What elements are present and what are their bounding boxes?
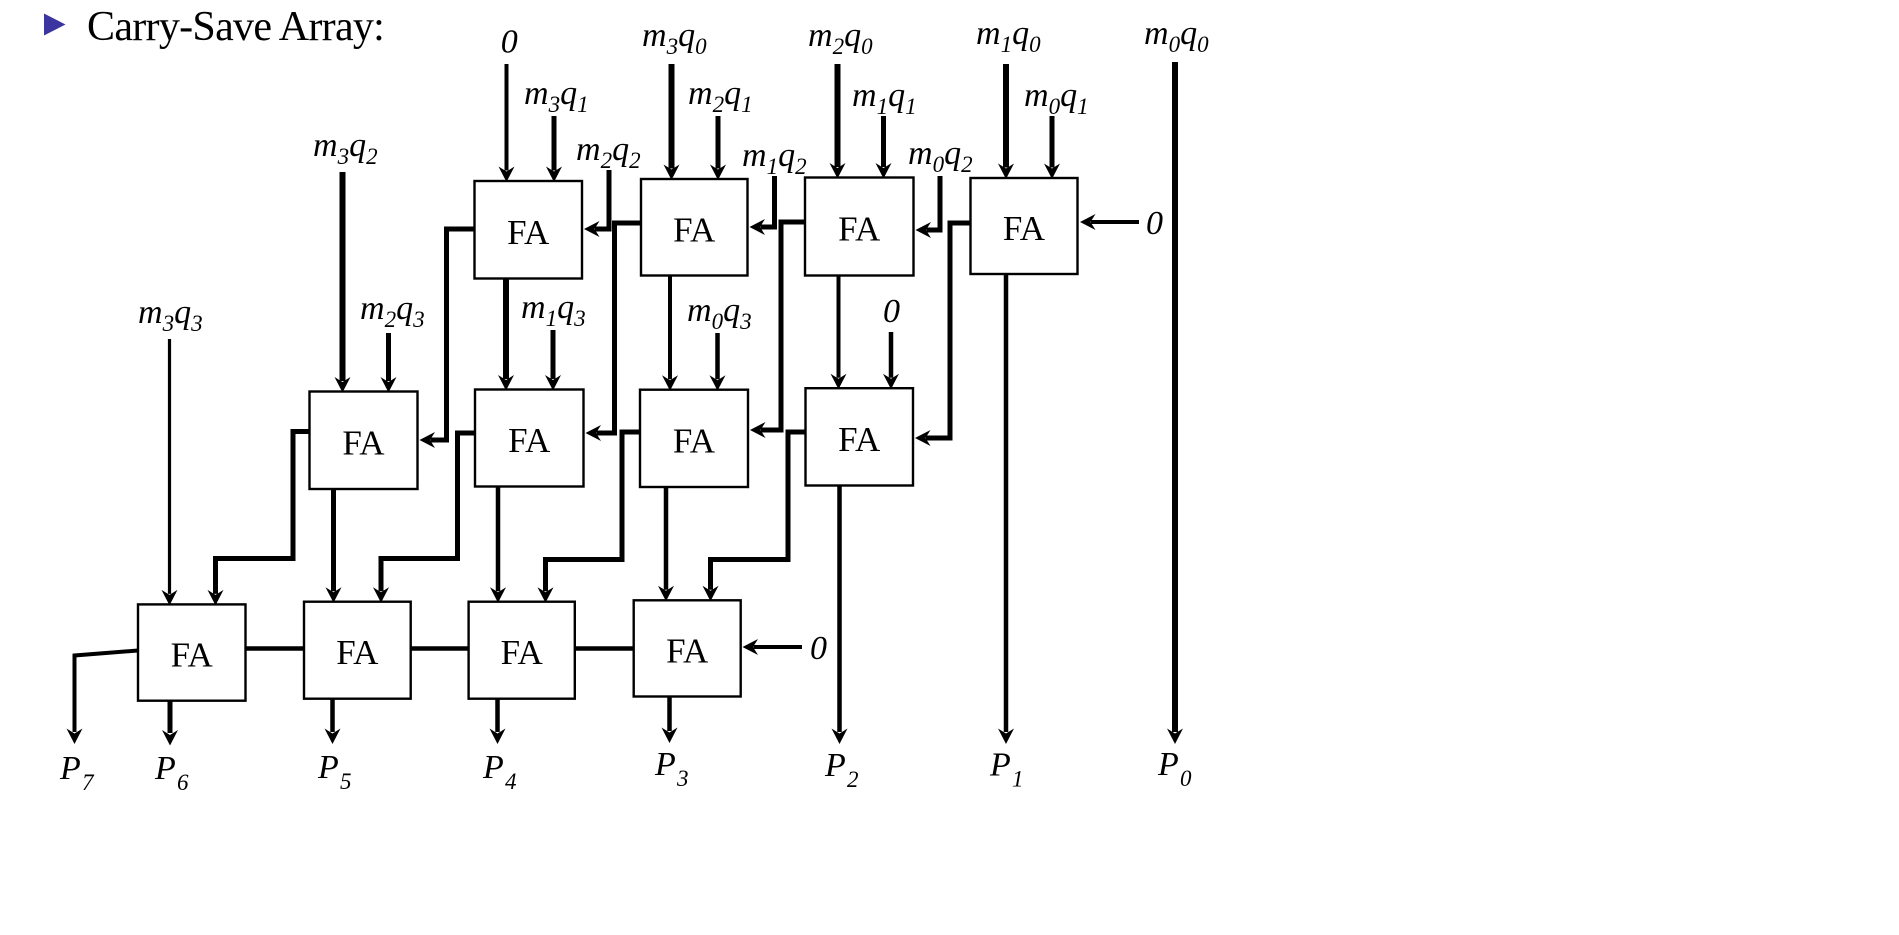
wire U3 sum to U8 input 1: [831, 276, 847, 390]
node P3: [654, 746, 689, 791]
svg-text:m2q2: m2q2: [576, 131, 641, 173]
full adder U7 (row2 col3): [640, 390, 748, 487]
full adder U8 (row2 col4): [806, 388, 914, 485]
label m0q3: [687, 292, 752, 334]
svg-text:0: 0: [1146, 205, 1163, 242]
svg-text:FA: FA: [673, 421, 716, 460]
wire m2q1 into U2 input 2: [710, 116, 726, 180]
wire U5 carry-out to U9 input 2: [208, 432, 310, 606]
svg-text:FA: FA: [507, 213, 550, 252]
svg-text:0: 0: [810, 630, 827, 667]
title bullet: [44, 14, 66, 36]
wire 0 into U1 input 1: [499, 64, 515, 182]
node P5: [317, 749, 352, 794]
full adder U9 (row3 col1): [138, 604, 246, 700]
label m1q3: [521, 289, 586, 331]
node P0: [1157, 746, 1192, 791]
wire carry link U11 to U10: [411, 646, 469, 651]
svg-text:FA: FA: [501, 633, 544, 672]
wire U7 carry-out to U11 input 2: [538, 432, 641, 603]
wire U8 carry-out to U12 input 2: [703, 432, 806, 601]
wire m1q2 into U2 carry-in: [750, 176, 775, 235]
wire m1q0 into U4 input 1: [998, 64, 1014, 179]
node 0 (input to U8): [883, 293, 900, 330]
label m3q1: [524, 75, 589, 117]
svg-text:m2q1: m2q1: [688, 75, 753, 117]
title text: [87, 4, 384, 50]
wire U2 carry-out to U6 carry-in: [586, 223, 642, 441]
svg-text:0: 0: [501, 24, 518, 61]
wire U6 carry-out to U10 input 2: [373, 433, 475, 603]
wire U4 carry-out to U8 carry-in: [915, 223, 971, 446]
full adder U11 (row3 col3): [469, 602, 575, 699]
wire 0 into U12 carry-in: [743, 639, 803, 655]
wire U9 sum down to P6: [162, 701, 178, 746]
svg-text:P4: P4: [482, 749, 517, 794]
svg-text:FA: FA: [336, 633, 379, 672]
label m0q1: [1024, 77, 1089, 119]
label m3q3: [138, 294, 203, 336]
svg-text:m0q1: m0q1: [1024, 77, 1089, 119]
svg-text:P3: P3: [654, 746, 689, 791]
wire U3 carry-out to U7 carry-in: [750, 222, 805, 438]
svg-text:m1q1: m1q1: [852, 77, 917, 119]
label m1q2: [742, 137, 807, 179]
svg-text:FA: FA: [171, 636, 214, 675]
svg-text:m3q2: m3q2: [313, 127, 378, 169]
wire m3q0 into U2 input 1: [664, 64, 680, 180]
label m1q0: [976, 15, 1041, 57]
svg-text:P5: P5: [317, 749, 352, 794]
wire m1q1 into U3 input 2: [876, 116, 892, 179]
wire U1 carry-out to U5 carry-in: [420, 229, 475, 448]
wire U2 sum to U7 input 1: [662, 276, 678, 391]
full adder U10 (row3 col2): [304, 602, 411, 699]
wire U12 sum down to P3: [662, 697, 678, 744]
svg-text:m1q0: m1q0: [976, 15, 1041, 57]
wire U6 sum to U11 input 1: [490, 487, 506, 603]
wire m0q3 into U7 input 2: [710, 333, 726, 391]
label m0q2: [908, 135, 973, 177]
wire U9 carry-out down to P7: [67, 651, 139, 745]
svg-text:m2q0: m2q0: [808, 17, 873, 59]
full adder U4 (row1 col4): [971, 178, 1078, 274]
svg-text:FA: FA: [342, 423, 385, 462]
svg-text:FA: FA: [673, 210, 716, 249]
svg-text:FA: FA: [838, 420, 881, 459]
label m0q0: [1144, 15, 1209, 57]
label m2q2: [576, 131, 641, 173]
full adder U6 (row2 col2): [475, 390, 584, 487]
svg-text:m3q1: m3q1: [524, 75, 589, 117]
svg-text:m0q2: m0q2: [908, 135, 973, 177]
wire 0 into U4 carry-in: [1080, 214, 1139, 230]
wire U8 sum down to P2: [832, 486, 848, 745]
wire m2q0 into U3 input 1: [830, 64, 846, 179]
full adder U1 (row1 col1): [475, 181, 583, 279]
label m2q3: [360, 290, 425, 332]
wire m0q1 into U4 input 2: [1044, 116, 1060, 179]
wire U5 sum to U10 input 1: [326, 489, 342, 603]
node 0 (carry-in to U12): [810, 630, 827, 667]
svg-text:P2: P2: [824, 747, 859, 792]
node 0 (carry-in to U4): [1146, 205, 1163, 242]
label m2q0: [808, 17, 873, 59]
svg-text:P7: P7: [59, 750, 95, 795]
wire m3q1 into U1 input 2: [546, 116, 562, 182]
node P1: [989, 747, 1024, 792]
svg-text:Carry-Save Array:: Carry-Save Array:: [87, 4, 384, 50]
svg-text:m3q3: m3q3: [138, 294, 203, 336]
node 0 (top input to U1): [501, 24, 518, 61]
svg-text:m2q3: m2q3: [360, 290, 425, 332]
wire carry link U10 to U9: [246, 646, 305, 651]
wire m1q3 into U6 input 2: [545, 330, 561, 391]
svg-text:m1q2: m1q2: [742, 137, 807, 179]
svg-text:FA: FA: [666, 631, 709, 670]
node P7: [59, 750, 95, 795]
svg-text:FA: FA: [838, 210, 881, 249]
svg-text:FA: FA: [1003, 209, 1046, 248]
wire U7 sum to U12 input 1: [658, 487, 674, 601]
svg-text:0: 0: [883, 293, 900, 330]
wire m3q3 into U9 input 1: [162, 339, 178, 605]
label m3q2: [313, 127, 378, 169]
svg-text:P6: P6: [154, 750, 189, 795]
node P4: [482, 749, 517, 794]
svg-text:m1q3: m1q3: [521, 289, 586, 331]
full adder U2 (row1 col2): [641, 179, 748, 276]
full adder U3 (row1 col3): [805, 178, 914, 276]
label m2q1: [688, 75, 753, 117]
svg-text:m0q3: m0q3: [687, 292, 752, 334]
wire carry link U12 to U11: [575, 646, 634, 651]
wire m0q0 down to P0: [1167, 62, 1183, 744]
wire 0 into U8 input 2: [883, 332, 899, 389]
wire m3q2 into U5 input 1: [335, 172, 351, 393]
node P6: [154, 750, 189, 795]
label m3q0: [642, 17, 707, 59]
wire m2q2 into U1 carry-in: [584, 170, 609, 237]
svg-text:P0: P0: [1157, 746, 1192, 791]
wire U10 sum down to P5: [325, 699, 341, 744]
wire U11 sum down to P4: [490, 699, 506, 744]
wire U4 sum down to P1: [998, 274, 1014, 744]
wire m2q3 into U5 input 2: [381, 333, 397, 393]
full adder U12 (row3 col4): [634, 600, 741, 696]
full adder U5 (row2 col1): [310, 392, 418, 490]
svg-text:P1: P1: [989, 747, 1024, 792]
wire U1 sum to U6 input 1: [498, 279, 514, 391]
node P2: [824, 747, 859, 792]
svg-text:FA: FA: [508, 421, 551, 460]
wire m0q2 into U3 carry-in: [916, 176, 941, 238]
label m1q1: [852, 77, 917, 119]
svg-text:m3q0: m3q0: [642, 17, 707, 59]
svg-text:m0q0: m0q0: [1144, 15, 1209, 57]
